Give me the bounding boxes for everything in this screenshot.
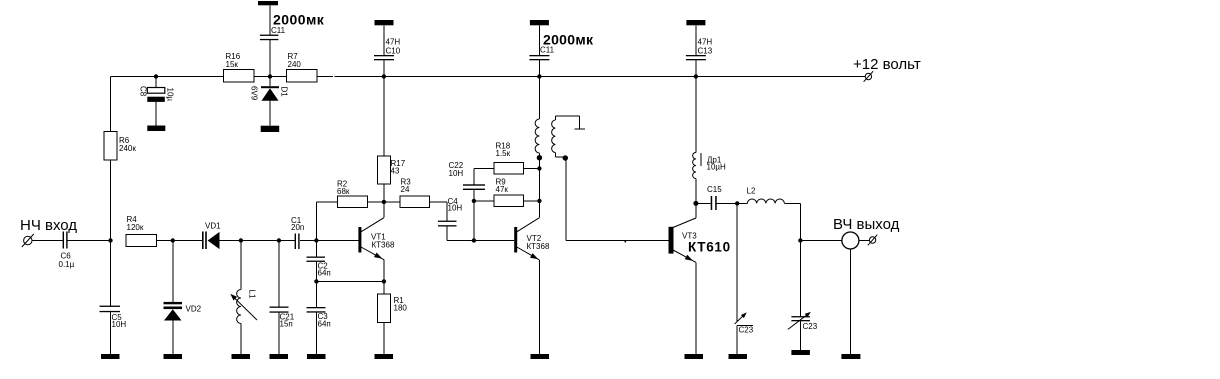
svg-text:L2: L2	[747, 187, 756, 196]
svg-text:10Н: 10Н	[112, 320, 127, 329]
ground D1	[261, 126, 280, 132]
node L1 junction	[239, 238, 243, 242]
transistor VT1 KT368	[358, 202, 395, 282]
resistor R2	[316, 180, 384, 208]
svg-text:43: 43	[391, 167, 400, 176]
svg-text:С23: С23	[803, 322, 818, 331]
svg-text:6V9: 6V9	[250, 86, 259, 101]
choke Dr1	[693, 77, 726, 204]
resistor R3	[384, 178, 447, 221]
wire input line	[32, 240, 111, 242]
node R18 right junction	[537, 166, 541, 170]
resistor R1	[378, 281, 408, 354]
svg-text:240к: 240к	[119, 144, 136, 153]
ground VT3 emitter	[685, 354, 704, 359]
inductor L1 variable	[230, 241, 257, 355]
ground top above C10	[375, 20, 394, 25]
svg-text:10Н: 10Н	[448, 204, 463, 213]
resistor R7	[287, 52, 318, 82]
wire left column vertical	[110, 77, 112, 241]
terminal НЧ вход	[20, 217, 77, 247]
terminal +12 вольт	[853, 56, 921, 82]
ground C3	[307, 354, 326, 359]
resistor R17	[378, 77, 406, 202]
svg-text:С15: С15	[707, 185, 722, 194]
wire to output connector	[800, 240, 842, 242]
svg-text:47Н: 47Н	[386, 38, 401, 47]
svg-text:1.5к: 1.5к	[496, 149, 511, 158]
svg-text:68к: 68к	[337, 187, 350, 196]
capacitor C13	[686, 25, 713, 76]
svg-text:С11: С11	[540, 46, 555, 55]
node C22/R9 junction	[472, 199, 476, 203]
capacitor C21	[270, 241, 295, 355]
node output junction	[798, 238, 802, 242]
svg-text:+12 вольт: +12 вольт	[853, 56, 921, 73]
node C8 junction on rail	[154, 74, 158, 78]
svg-text:15п: 15п	[280, 320, 293, 329]
ground C23 second	[791, 350, 810, 355]
resistor R18	[494, 142, 539, 175]
zener diode D1	[250, 77, 289, 126]
capacitor C4	[438, 197, 514, 241]
svg-text:10µ: 10µ	[166, 88, 175, 102]
capacitor C11 2000mk first	[260, 5, 325, 76]
svg-text:24: 24	[401, 185, 410, 194]
wire VD1 to C1	[220, 240, 296, 242]
node D1/C11 junction on rail	[268, 74, 272, 78]
node emitter/R1	[382, 279, 386, 283]
capacitor C11 2000mk second	[529, 25, 594, 76]
wire collector column VT2	[538, 153, 540, 218]
node emitter line left	[314, 279, 318, 283]
node input/R6 junction	[108, 238, 112, 242]
ground C8	[147, 126, 165, 132]
node C22 column/base junction	[472, 238, 476, 242]
ground VT2 emitter	[531, 354, 550, 359]
ground output	[841, 354, 860, 359]
node C15/Dr1/collector junction	[693, 201, 698, 206]
node stray dot on base wire	[625, 241, 627, 243]
svg-text:10µН: 10µН	[707, 163, 727, 172]
svg-text:С13: С13	[698, 47, 713, 56]
svg-text:180: 180	[394, 304, 408, 313]
svg-text:КТ368: КТ368	[527, 242, 550, 251]
svg-text:20п: 20п	[291, 223, 304, 232]
transformer secondary coil	[552, 116, 585, 161]
node base/R2/C2 junction	[314, 238, 318, 242]
svg-text:10Н: 10Н	[449, 169, 464, 178]
node C10/R17 junction on rail	[382, 74, 386, 78]
svg-text:0.1µ: 0.1µ	[59, 260, 75, 269]
svg-text:47Н: 47Н	[698, 38, 713, 47]
svg-text:15к: 15к	[226, 60, 239, 69]
node R9 right junction	[537, 199, 541, 203]
transistor VT2 KT368	[514, 218, 550, 354]
wire R4 to VD1	[157, 240, 203, 242]
capacitor C8	[139, 77, 175, 126]
resistor R4	[126, 215, 157, 247]
resistor R16	[224, 52, 255, 82]
svg-text:L1: L1	[248, 290, 257, 299]
svg-text:С11: С11	[271, 26, 286, 35]
wire C2 to R1 emitter line	[316, 280, 384, 282]
capacitor C22	[449, 161, 486, 190]
ground top above C11 second	[530, 20, 549, 25]
svg-text:120к: 120к	[127, 223, 144, 232]
svg-text:КТ368: КТ368	[372, 241, 395, 250]
ground C5	[101, 354, 120, 359]
transformer primary coil	[535, 77, 542, 161]
capacitor C10	[374, 25, 401, 76]
svg-text:64п: 64п	[318, 320, 331, 329]
varicap VD2	[164, 241, 202, 355]
resistor R6	[104, 132, 136, 161]
capacitor C6	[59, 232, 75, 270]
svg-text:240: 240	[288, 60, 302, 69]
wire output connector ground	[849, 249, 851, 354]
node R2/R3/R17/collector	[382, 200, 386, 204]
svg-text:D1: D1	[280, 87, 289, 98]
ground C21	[270, 354, 289, 359]
node VD2 junction	[171, 238, 175, 242]
node C21 junction	[277, 238, 281, 242]
wire C1 to VT1 base	[300, 240, 359, 242]
svg-text:С10: С10	[386, 47, 401, 56]
diode VD1	[202, 222, 221, 250]
inductor L2	[737, 187, 800, 241]
wire +12V power rail	[111, 76, 866, 78]
capacitor C3	[307, 281, 331, 354]
capacitor C1	[291, 216, 304, 249]
node C23a junction	[735, 201, 739, 205]
svg-text:VD2: VD2	[186, 305, 202, 314]
node C11b/transformer junction on rail	[537, 74, 541, 78]
trimmer capacitor C23 second	[788, 241, 818, 351]
wire R2 feedback vertical	[315, 202, 317, 241]
svg-text:VD1: VD1	[205, 222, 221, 231]
ground C23 first	[729, 354, 748, 359]
capacitor C15	[696, 185, 737, 210]
ground L1	[232, 354, 251, 359]
svg-text:ВЧ выход: ВЧ выход	[833, 216, 900, 233]
capacitor C2	[307, 241, 331, 282]
wire secondary to VT3 base	[566, 157, 669, 241]
ground top above C13	[686, 20, 705, 25]
svg-text:С23: С23	[739, 326, 754, 335]
resistor R9	[474, 178, 540, 207]
ground R1	[375, 354, 394, 359]
svg-text:КТ610: КТ610	[688, 240, 731, 255]
svg-text:НЧ вход: НЧ вход	[20, 217, 77, 234]
svg-text:47к: 47к	[496, 185, 509, 194]
node C13/Dr1 junction on rail	[694, 74, 698, 78]
trimmer capacitor C23 first	[735, 203, 754, 354]
svg-text:С8: С8	[139, 86, 148, 97]
ground top above C11	[258, 1, 278, 5]
transistor VT3 KT610	[669, 203, 731, 354]
svg-text:64п: 64п	[318, 269, 331, 278]
terminal ВЧ выход	[833, 216, 900, 249]
ground VD2	[164, 354, 183, 359]
capacitor C5	[100, 241, 127, 355]
wire C22 column	[474, 169, 494, 241]
